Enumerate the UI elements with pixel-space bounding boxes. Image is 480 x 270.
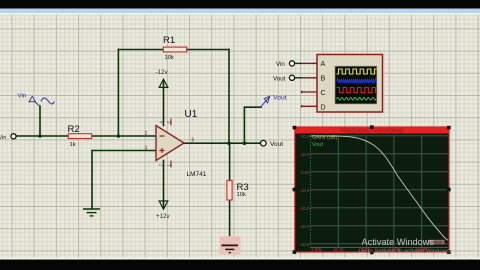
wire to scope pin A (295, 62, 302, 64)
top black bar (0, 0, 480, 9)
wire input terminal to R2 (16, 135, 68, 137)
ground (pin 3) (83, 209, 100, 216)
y axis labels (299, 134, 310, 247)
wire Vout probe branch (244, 107, 261, 143)
trace A yellow square wave (337, 69, 377, 74)
wire to scope pin B (295, 77, 302, 79)
svg-text:FREQUENCY RESPONSE: FREQUENCY RESPONSE (341, 128, 404, 134)
svg-text:-20.0: -20.0 (299, 206, 310, 211)
wire Vin generator drop (39, 106, 41, 136)
svg-text:A: A (321, 61, 326, 68)
svg-text:Go to Settings to activate Win: Go to Settings to activate Windows. (359, 249, 452, 255)
svg-text:10.0k: 10.0k (333, 247, 345, 252)
graph body (295, 127, 449, 252)
wire R1 top left (118, 49, 163, 51)
svg-text:Vin: Vin (0, 135, 6, 141)
pin C stub (302, 91, 317, 93)
grid vertical lines (338, 136, 421, 248)
pin A (302, 62, 317, 64)
svg-text:1k: 1k (70, 142, 76, 148)
graph title bar (295, 127, 449, 134)
terminal Vin (scope A) (276, 61, 317, 68)
wire R3 top (229, 143, 231, 180)
gain curve (311, 136, 449, 240)
svg-text:10k: 10k (237, 192, 246, 198)
pin D stub (302, 105, 317, 107)
svg-text:0.00: 0.00 (301, 170, 310, 175)
svg-text:D: D (321, 105, 326, 112)
power -12v (156, 69, 169, 87)
node junction at Vin (38, 134, 42, 138)
svg-text:20.0: 20.0 (301, 134, 310, 139)
svg-text:R1: R1 (163, 35, 175, 46)
pin 5 stub (170, 119, 172, 126)
node junction output/R3 (227, 141, 231, 145)
ground (R3, selected) (220, 236, 241, 254)
selection handles (293, 125, 451, 254)
wire R2 to op-amp pin 2 (92, 135, 156, 137)
svg-text:C: C (321, 90, 326, 97)
svg-text:U1: U1 (185, 109, 198, 120)
bottom black bar (0, 260, 480, 270)
output terminal Vout (261, 140, 284, 147)
wire -12v supply to pin 4 (163, 81, 165, 126)
wire op-amp output (184, 142, 261, 144)
pin B (302, 77, 317, 79)
oscilloscope box (317, 55, 383, 113)
input terminal Vin (0, 134, 16, 141)
svg-text:R2: R2 (68, 124, 80, 135)
svg-text:Vout: Vout (273, 95, 287, 102)
svg-text:2: 2 (145, 131, 148, 137)
svg-text:-12v: -12v (156, 69, 169, 76)
generator Vin probe (18, 93, 55, 107)
resistor R2 (68, 124, 92, 148)
node junction output/probe (243, 141, 247, 145)
power +12v (156, 201, 170, 220)
probe Vout (261, 95, 287, 108)
svg-text:-40.0: -40.0 (299, 242, 310, 247)
svg-text:Vin: Vin (18, 93, 27, 100)
wire R1 right vertical (228, 50, 230, 144)
svg-text:B: B (321, 76, 326, 83)
svg-text:10.0: 10.0 (301, 152, 310, 157)
svg-text:Vout: Vout (273, 75, 286, 82)
wire R1 top right (187, 49, 229, 51)
svg-text:LM741: LM741 (187, 171, 207, 178)
top white strip (0, 13, 480, 15)
grid horizontal lines (311, 136, 449, 244)
svg-text:Vout: Vout (312, 142, 323, 148)
label PHASE (428, 240, 445, 245)
svg-text:+12v: +12v (156, 213, 170, 220)
wire +12v supply to pin 7 (163, 161, 165, 209)
x axis labels (311, 247, 428, 252)
wire R3 bottom (229, 200, 231, 245)
svg-text:3: 3 (145, 145, 148, 151)
wire pin3 to ground (92, 151, 156, 210)
trace C red square wave (337, 88, 378, 93)
trace B blue noise (337, 78, 377, 83)
wire R1 left vertical (117, 50, 119, 137)
frequency response graph (293, 125, 451, 254)
svg-text:Vin: Vin (276, 61, 285, 68)
bottom white strip (0, 258, 480, 260)
bottom axis (311, 247, 449, 249)
scope screen (335, 66, 377, 104)
svg-text:10k: 10k (165, 55, 174, 61)
resistor R3 (227, 180, 249, 200)
trace D green sine (337, 98, 377, 101)
svg-text:6: 6 (192, 138, 195, 144)
node junction at R2/R1 (117, 134, 121, 138)
svg-text:1.00k: 1.00k (311, 247, 323, 252)
terminal Vout (scope B) (273, 75, 317, 82)
svg-text:-10.0: -10.0 (299, 188, 310, 193)
left axis dotted (310, 136, 312, 248)
svg-text:Activate Windows: Activate Windows (362, 237, 435, 247)
pin 1 stub (170, 161, 172, 168)
resistor R1 (163, 35, 187, 61)
svg-text:Vout: Vout (270, 141, 283, 148)
svg-text:-30.0: -30.0 (299, 224, 310, 229)
top blue strip (0, 9, 480, 14)
op-amp U1 (145, 109, 207, 178)
